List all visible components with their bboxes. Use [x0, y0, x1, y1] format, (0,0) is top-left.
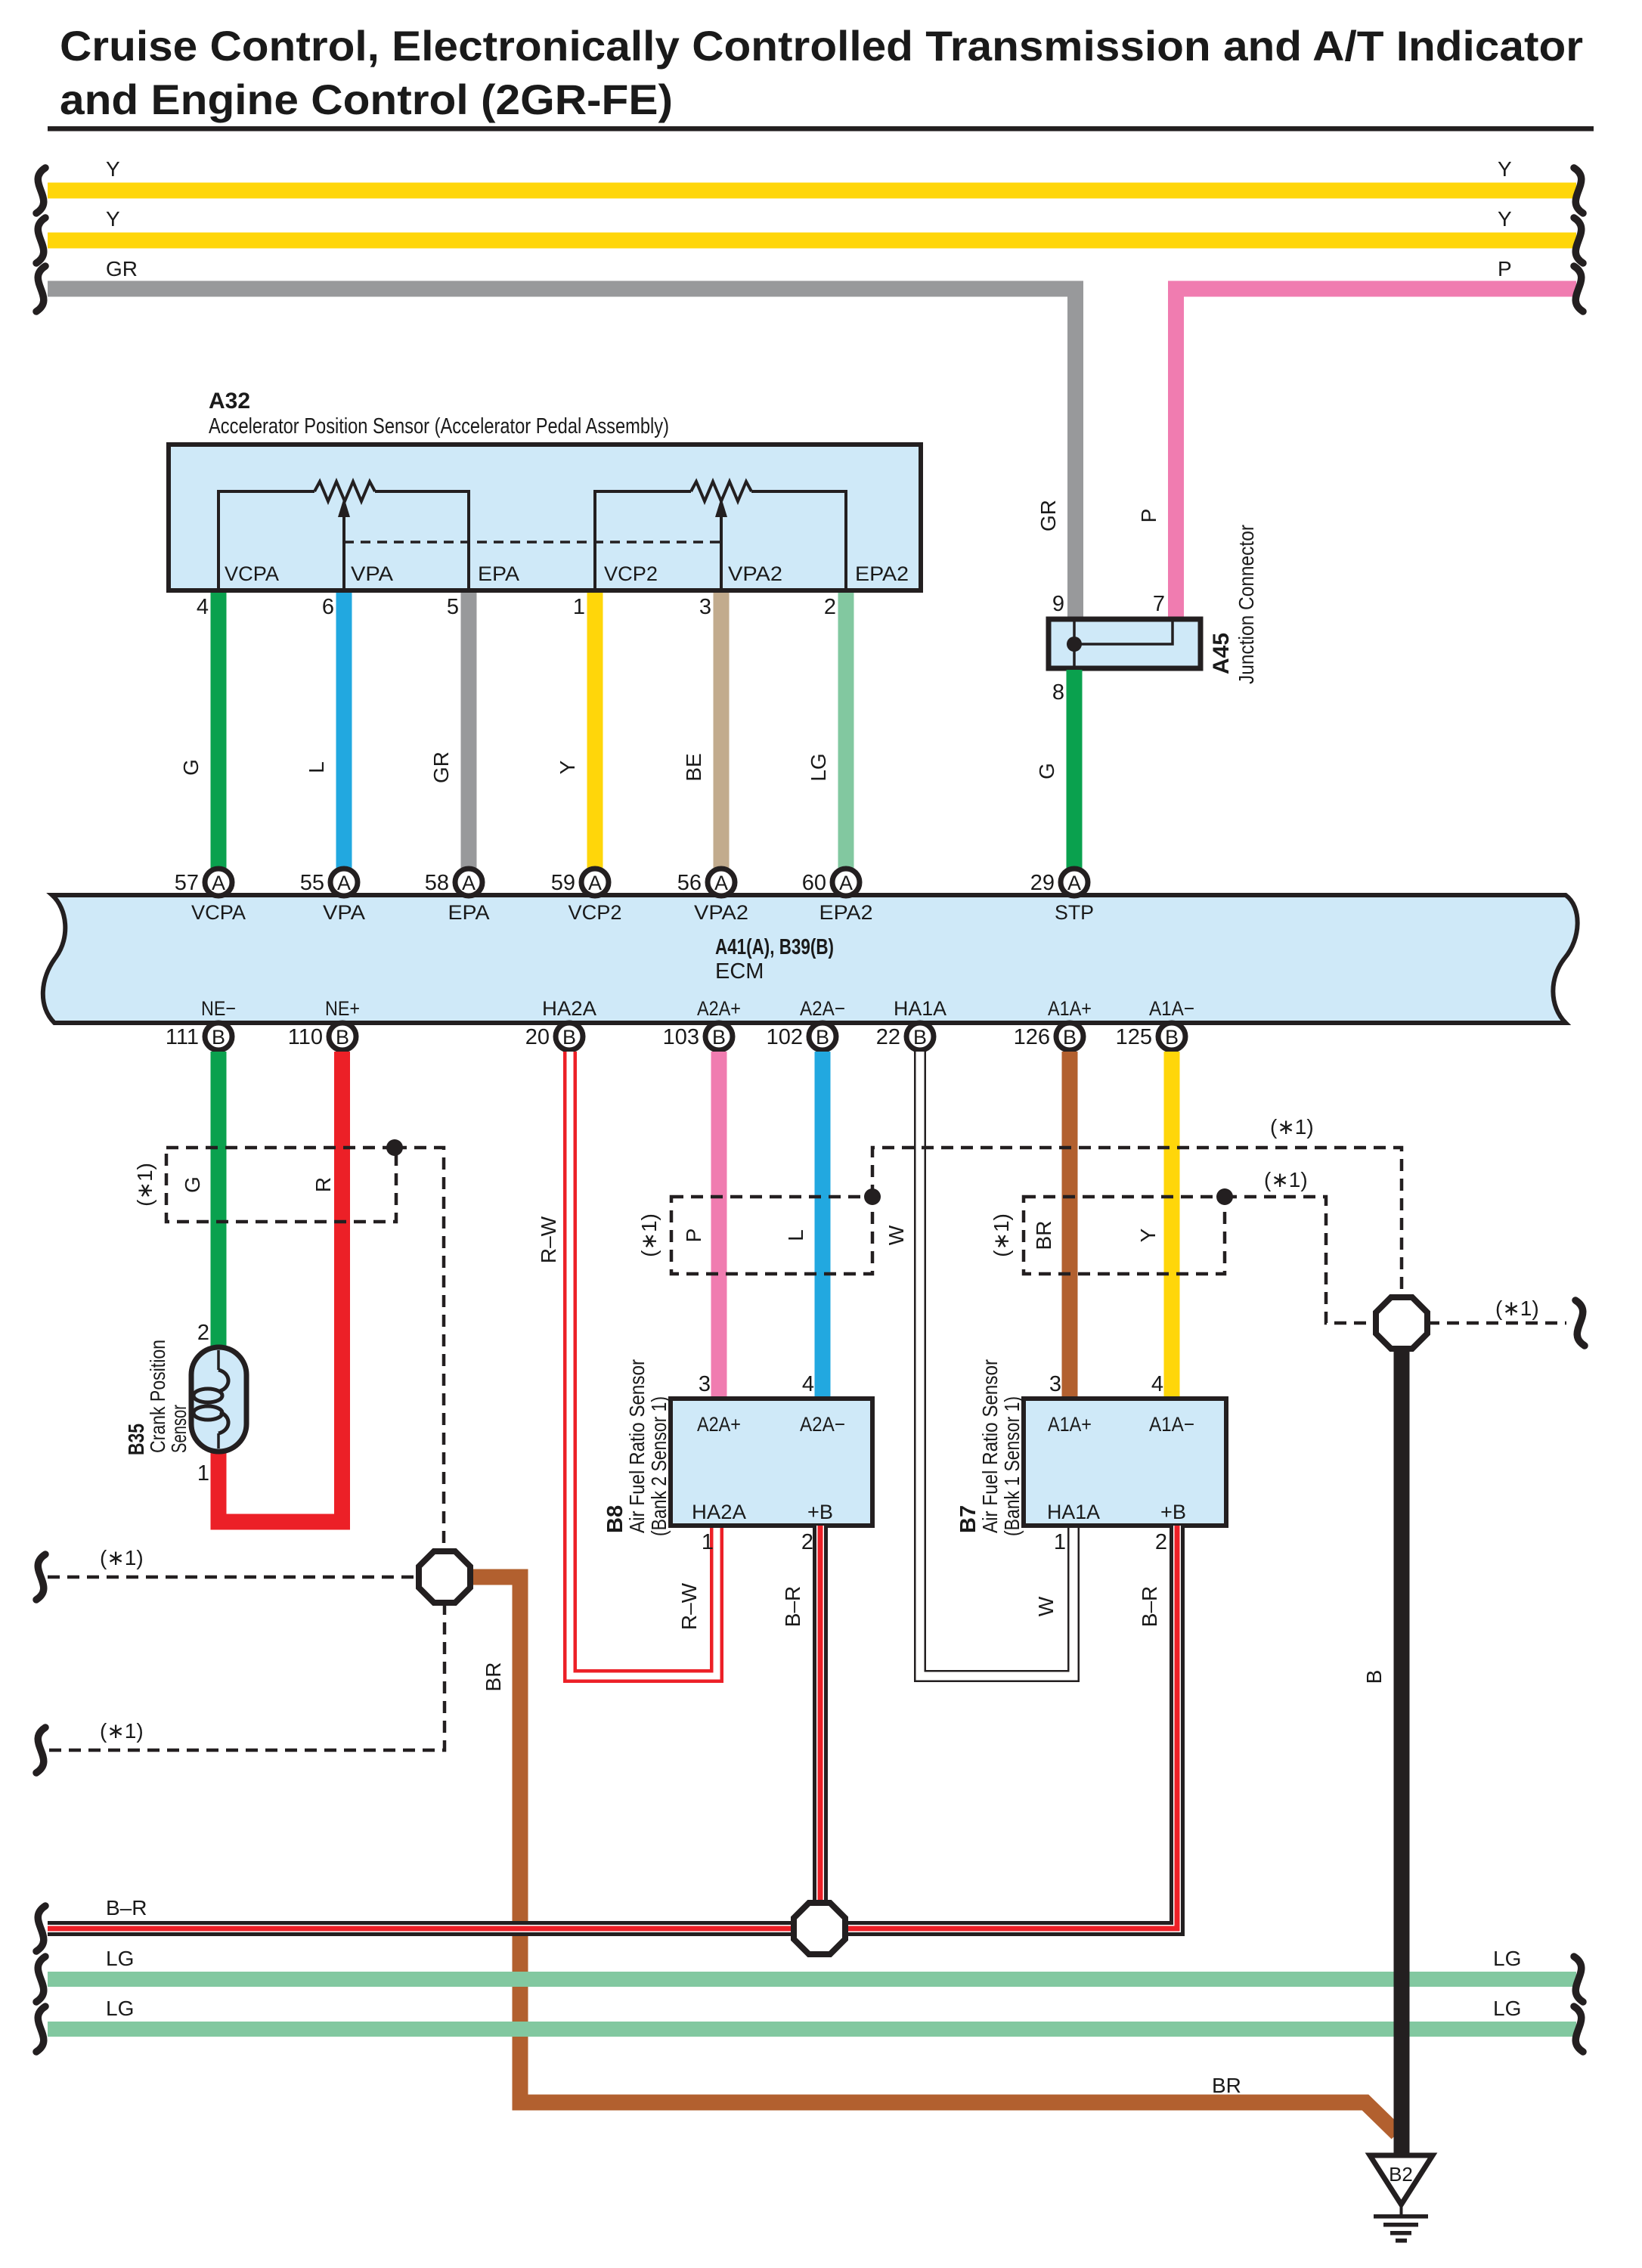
- svg-text:BR: BR: [482, 1662, 505, 1692]
- svg-text:LG: LG: [106, 1947, 134, 1970]
- shield drain dashed box3 to octagon: [1225, 1197, 1374, 1323]
- resistor potentiometer 2 (VCP2-EPA2) wiring: [595, 491, 691, 590]
- svg-text:Air Fuel Ratio Sensor: Air Fuel Ratio Sensor: [625, 1359, 649, 1533]
- pin 57 (A): [205, 869, 232, 896]
- wire P from right, turns down to A45 pin 7: [1176, 289, 1577, 618]
- svg-text:B: B: [712, 1026, 726, 1049]
- junction dot on box1: [386, 1139, 403, 1156]
- svg-text:Y: Y: [106, 157, 120, 181]
- wire Y continuation left row2: [36, 218, 45, 263]
- svg-text:LG: LG: [1493, 1997, 1521, 2020]
- svg-text:(Bank 1 Sensor 1): (Bank 1 Sensor 1): [1000, 1396, 1024, 1536]
- svg-text:3: 3: [1049, 1372, 1061, 1396]
- svg-text:W: W: [1034, 1596, 1058, 1616]
- svg-text:B: B: [562, 1026, 576, 1049]
- svg-text:VPA: VPA: [351, 562, 393, 585]
- shield dashed box (G/R): [166, 1148, 396, 1222]
- B35 internal lead bottom: [217, 1433, 220, 1448]
- svg-text:STP: STP: [1055, 901, 1094, 924]
- svg-text:R–W: R–W: [537, 1216, 560, 1263]
- wire Y continuation right row2: [1574, 218, 1583, 263]
- wire R-W from ECM 20 looping to B8 pin 1: [570, 1052, 717, 1676]
- wire BE from A32 to ECM: [714, 593, 730, 869]
- shield dashed box (BR/Y): [1024, 1197, 1225, 1274]
- ground B2 triangle: [1370, 2155, 1433, 2204]
- svg-text:P: P: [1498, 257, 1512, 280]
- svg-text:NE+: NE+: [325, 997, 360, 1020]
- resistor potentiometer 1 (VCPA-EPA) wiring: [218, 491, 314, 590]
- svg-text:G: G: [1035, 763, 1058, 779]
- svg-text:9: 9: [1052, 592, 1064, 616]
- pin 59 (A): [581, 869, 609, 896]
- wire from resistor 1 to EPA: [375, 491, 469, 590]
- wire GR from left, turns down to A45 pin 9: [48, 289, 1076, 618]
- continuation left LG1: [36, 1957, 45, 2002]
- svg-text:LG: LG: [106, 1997, 134, 2020]
- continuation right LG1: [1574, 1957, 1583, 2002]
- wire W from ECM 22 looping to B7 pin 1: [920, 1052, 1073, 1676]
- ECM connector band A41(A), B39(B): [43, 895, 1578, 1023]
- svg-text:BR: BR: [1032, 1221, 1055, 1250]
- svg-text:+B: +B: [807, 1501, 833, 1523]
- svg-text:58: 58: [425, 871, 449, 895]
- svg-text:P: P: [682, 1228, 705, 1243]
- svg-text:B–R: B–R: [106, 1896, 147, 1919]
- svg-text:HA2A: HA2A: [692, 1501, 746, 1523]
- pin 103 (B): [705, 1023, 733, 1050]
- svg-text:A: A: [714, 872, 728, 894]
- svg-text:B: B: [336, 1026, 349, 1049]
- svg-text:GR: GR: [429, 751, 453, 783]
- svg-text:B–R: B–R: [781, 1586, 804, 1627]
- svg-text:60: 60: [802, 871, 826, 895]
- svg-text:P: P: [1137, 509, 1160, 523]
- svg-text:125: 125: [1116, 1025, 1152, 1049]
- wire P from ECM 103 to B8 pin 3: [711, 1052, 727, 1396]
- svg-text:Y: Y: [1136, 1228, 1160, 1242]
- inductor coil B35 loop 1: [194, 1389, 222, 1402]
- svg-text:HA1A: HA1A: [894, 997, 946, 1020]
- svg-text:(∗1): (∗1): [1270, 1115, 1314, 1139]
- svg-text:7: 7: [1153, 592, 1165, 616]
- continuation right dashed: [1575, 1300, 1585, 1346]
- pin 22 (B): [906, 1023, 934, 1050]
- svg-text:B: B: [816, 1026, 829, 1049]
- B35 internal lead top: [217, 1350, 220, 1370]
- svg-text:2: 2: [197, 1321, 209, 1345]
- svg-text:+B: +B: [1160, 1501, 1186, 1523]
- wire Y continuation left row1: [36, 168, 45, 213]
- junction connector octagon (shield drain): [419, 1551, 470, 1603]
- svg-text:A45: A45: [1209, 633, 1234, 674]
- svg-text:(∗1): (∗1): [100, 1719, 144, 1743]
- wire G from ECM 111 to B35 pin 2: [211, 1052, 227, 1347]
- sensor B8 box: [671, 1399, 872, 1526]
- svg-text:VCP2: VCP2: [569, 901, 622, 924]
- svg-text:A: A: [212, 872, 225, 894]
- wire B-R horizontal bus and riser to B7 pin 2: [48, 1526, 1177, 1929]
- svg-text:VCPA: VCPA: [225, 562, 279, 585]
- svg-text:R: R: [311, 1177, 335, 1192]
- dashed (*1) line from octagon2 bottom: [48, 1603, 445, 1750]
- svg-text:A: A: [839, 872, 853, 894]
- resistor zigzag 2: [691, 482, 751, 501]
- svg-text:2: 2: [1155, 1530, 1167, 1554]
- junction connector octagon (shield to ground): [1376, 1297, 1427, 1349]
- sensor B7 box: [1024, 1399, 1226, 1526]
- wire B-R from B8 pin 2 down: [813, 1526, 828, 1929]
- svg-text:A1A+: A1A+: [1048, 1413, 1092, 1436]
- pin 60 (A): [832, 869, 860, 896]
- svg-text:B: B: [913, 1026, 927, 1049]
- svg-text:110: 110: [288, 1025, 323, 1049]
- svg-text:B: B: [1362, 1670, 1386, 1684]
- svg-text:4: 4: [802, 1372, 814, 1396]
- svg-text:G: G: [181, 1176, 204, 1193]
- svg-text:(∗1): (∗1): [1495, 1297, 1539, 1320]
- wire GR from A32 to ECM: [461, 593, 477, 869]
- svg-text:GR: GR: [106, 257, 138, 280]
- svg-text:LG: LG: [807, 753, 830, 781]
- wiper arm VPA: [342, 514, 345, 590]
- svg-text:103: 103: [663, 1025, 699, 1049]
- svg-text:Cruise Control, Electronically: Cruise Control, Electronically Controlle…: [60, 22, 1583, 70]
- junction dot on box2: [864, 1188, 881, 1205]
- svg-text:NE−: NE−: [201, 997, 236, 1020]
- svg-text:and Engine Control (2GR-FE): and Engine Control (2GR-FE): [60, 76, 673, 123]
- wire GR continuation left: [36, 266, 45, 311]
- svg-text:3: 3: [699, 595, 711, 619]
- ground bar 2: [1383, 2223, 1418, 2227]
- continuation left dashed upper: [36, 1554, 45, 1600]
- svg-text:102: 102: [767, 1025, 803, 1049]
- wire P continuation right: [1574, 266, 1583, 311]
- svg-text:EPA2: EPA2: [819, 901, 873, 924]
- svg-text:HA1A: HA1A: [1047, 1501, 1100, 1523]
- svg-text:A1A+: A1A+: [1048, 997, 1092, 1020]
- svg-text:111: 111: [166, 1025, 199, 1049]
- svg-text:A2A−: A2A−: [800, 997, 845, 1020]
- svg-text:A: A: [337, 872, 351, 894]
- svg-text:5: 5: [447, 595, 459, 619]
- pin 111 (B): [205, 1023, 232, 1050]
- svg-text:59: 59: [551, 871, 575, 895]
- svg-text:A1A−: A1A−: [1149, 997, 1194, 1020]
- pin 58 (A): [455, 869, 482, 896]
- A45 internal bus line: [1073, 621, 1076, 666]
- svg-text:Accelerator Position Sensor (A: Accelerator Position Sensor (Accelerator…: [209, 414, 669, 438]
- svg-text:6: 6: [322, 595, 334, 619]
- svg-text:22: 22: [876, 1025, 900, 1049]
- svg-text:(∗1): (∗1): [990, 1213, 1013, 1257]
- svg-text:3: 3: [699, 1372, 711, 1396]
- svg-text:ECM: ECM: [715, 959, 764, 984]
- svg-text:(∗1): (∗1): [100, 1546, 144, 1569]
- svg-text:A32: A32: [209, 389, 250, 414]
- pin 126 (B): [1056, 1023, 1083, 1050]
- svg-text:1: 1: [573, 595, 585, 619]
- svg-text:VPA2: VPA2: [728, 562, 782, 585]
- continuation right LG2: [1574, 2006, 1583, 2052]
- svg-text:56: 56: [677, 871, 702, 895]
- svg-text:1: 1: [1054, 1530, 1066, 1554]
- svg-text:Y: Y: [106, 207, 120, 231]
- svg-text:(∗1): (∗1): [133, 1163, 156, 1207]
- wire Y top row 2: [48, 233, 1576, 249]
- continuation left dashed lower: [36, 1727, 45, 1773]
- svg-text:LG: LG: [1493, 1947, 1521, 1970]
- svg-text:2: 2: [801, 1530, 813, 1554]
- svg-text:B: B: [1165, 1026, 1179, 1049]
- wire B from octagon1 to ground B2: [1394, 1348, 1410, 2155]
- svg-text:HA2A: HA2A: [542, 997, 596, 1020]
- junction dot on box3: [1216, 1188, 1233, 1205]
- svg-text:B7: B7: [956, 1505, 981, 1533]
- inductor coil B35 bottom arc: [218, 1412, 228, 1433]
- svg-text:(∗1): (∗1): [637, 1213, 661, 1257]
- pin 55 (A): [330, 869, 358, 896]
- svg-text:(Bank 2 Sensor 1): (Bank 2 Sensor 1): [647, 1396, 671, 1536]
- svg-text:EPA: EPA: [448, 901, 490, 924]
- wire G from A32 to ECM: [211, 593, 227, 869]
- wiper arm VPA2: [720, 514, 723, 590]
- svg-text:A1A−: A1A−: [1149, 1413, 1194, 1436]
- svg-text:57: 57: [175, 871, 199, 895]
- svg-text:GR: GR: [1036, 500, 1060, 531]
- svg-text:B: B: [1063, 1026, 1077, 1049]
- svg-text:Y: Y: [556, 760, 579, 774]
- wire L from A32 to ECM: [336, 593, 352, 869]
- svg-text:4: 4: [1151, 1372, 1163, 1396]
- wire BR from octagon2 down and right to ground wire: [469, 1577, 1397, 2133]
- wire Y top row 1: [48, 183, 1576, 199]
- svg-text:EPA2: EPA2: [855, 562, 909, 585]
- svg-text:(∗1): (∗1): [1264, 1168, 1308, 1191]
- svg-text:BR: BR: [1212, 2074, 1241, 2097]
- pin 56 (A): [708, 869, 735, 896]
- wire Y continuation right row1: [1574, 168, 1583, 213]
- svg-text:8: 8: [1052, 680, 1064, 705]
- A45 internal junction dot: [1067, 637, 1082, 652]
- dashed (*1) line to octagon2 left: [48, 1576, 419, 1579]
- svg-text:Sensor: Sensor: [167, 1405, 191, 1453]
- svg-text:Junction Connector: Junction Connector: [1235, 525, 1258, 684]
- resistor zigzag 1: [314, 482, 375, 501]
- inductor coil B35 loop 2: [194, 1406, 222, 1420]
- svg-text:L: L: [305, 761, 328, 773]
- sensor B35 Crank Position Sensor body: [191, 1347, 246, 1452]
- svg-text:A: A: [462, 872, 476, 894]
- svg-text:A2A−: A2A−: [800, 1413, 845, 1436]
- svg-text:A: A: [588, 872, 602, 894]
- wire R loop from B35 pin 1 to ECM 110: [218, 1052, 342, 1522]
- svg-text:A: A: [1067, 872, 1081, 894]
- wire L from ECM 102 to B8 pin 4: [815, 1052, 831, 1396]
- svg-text:B2: B2: [1389, 2163, 1413, 2186]
- pin 29 (A): [1061, 869, 1088, 896]
- wire Y from ECM 125 to B7 pin 4: [1164, 1052, 1180, 1396]
- wire BR from ECM 126 to B7 pin 3: [1062, 1052, 1078, 1396]
- shield drain dashed to octagon junction: [395, 1148, 444, 1551]
- svg-text:B: B: [212, 1026, 225, 1049]
- pin 125 (B): [1158, 1023, 1185, 1050]
- continuation left B-R: [36, 1906, 45, 1951]
- svg-text:Air Fuel Ratio Sensor: Air Fuel Ratio Sensor: [978, 1359, 1002, 1533]
- svg-text:VCPA: VCPA: [191, 901, 246, 924]
- svg-text:4: 4: [197, 595, 209, 619]
- svg-text:Crank Position: Crank Position: [146, 1340, 169, 1453]
- svg-text:126: 126: [1014, 1025, 1050, 1049]
- wire from resistor 2 to EPA2: [751, 491, 846, 590]
- wire LG row 2: [48, 2022, 1576, 2037]
- wire G from A45 pin 8 to ECM pin 29: [1067, 670, 1083, 869]
- svg-text:G: G: [179, 759, 203, 776]
- svg-text:1: 1: [197, 1461, 209, 1486]
- ground bar 3: [1390, 2231, 1411, 2235]
- svg-text:55: 55: [300, 871, 324, 895]
- ground bar 1: [1374, 2214, 1428, 2219]
- svg-text:20: 20: [525, 1025, 550, 1049]
- junction connector octagon on B-R bus: [794, 1903, 845, 1954]
- shield drain dashed box2 to octagon: [872, 1148, 1402, 1296]
- continuation left LG2: [36, 2006, 45, 2052]
- connector A32 box: [169, 445, 921, 590]
- dashed (*1) from octagon1 to right: [1427, 1321, 1566, 1325]
- wire LG from A32 to ECM: [838, 593, 854, 869]
- ground bar 4: [1396, 2239, 1407, 2243]
- pin 20 (B): [556, 1023, 583, 1050]
- svg-text:1: 1: [702, 1530, 714, 1554]
- pin 110 (B): [329, 1023, 356, 1050]
- svg-text:A2A+: A2A+: [697, 997, 741, 1020]
- svg-text:2: 2: [824, 595, 836, 619]
- pin 102 (B): [809, 1023, 836, 1050]
- svg-text:EPA: EPA: [478, 562, 519, 585]
- svg-text:VPA: VPA: [323, 901, 365, 924]
- svg-text:VCP2: VCP2: [604, 562, 658, 585]
- svg-text:VPA2: VPA2: [694, 901, 748, 924]
- wire B over LG rows: [1394, 1966, 1410, 2155]
- svg-text:W: W: [885, 1225, 908, 1245]
- junction connector A45 box: [1049, 619, 1201, 668]
- svg-text:Y: Y: [1498, 207, 1512, 231]
- svg-text:B–R: B–R: [1138, 1586, 1161, 1627]
- dashed link between wipers: [344, 541, 721, 544]
- svg-text:29: 29: [1030, 871, 1055, 895]
- wire LG row 1: [48, 1972, 1576, 1987]
- svg-text:L: L: [784, 1229, 807, 1241]
- svg-text:BE: BE: [682, 753, 705, 781]
- wire Y from A32 to ECM: [587, 593, 603, 869]
- svg-text:A2A+: A2A+: [697, 1413, 741, 1436]
- ground stem: [1400, 2204, 1403, 2215]
- shield dashed box (P/L): [671, 1197, 872, 1274]
- svg-text:B8: B8: [603, 1505, 627, 1533]
- svg-text:Y: Y: [1498, 157, 1512, 181]
- svg-text:A41(A), B39(B): A41(A), B39(B): [715, 935, 834, 959]
- svg-text:R–W: R–W: [677, 1582, 701, 1630]
- title underline: [48, 126, 1594, 132]
- inductor coil B35 top arc: [218, 1370, 228, 1391]
